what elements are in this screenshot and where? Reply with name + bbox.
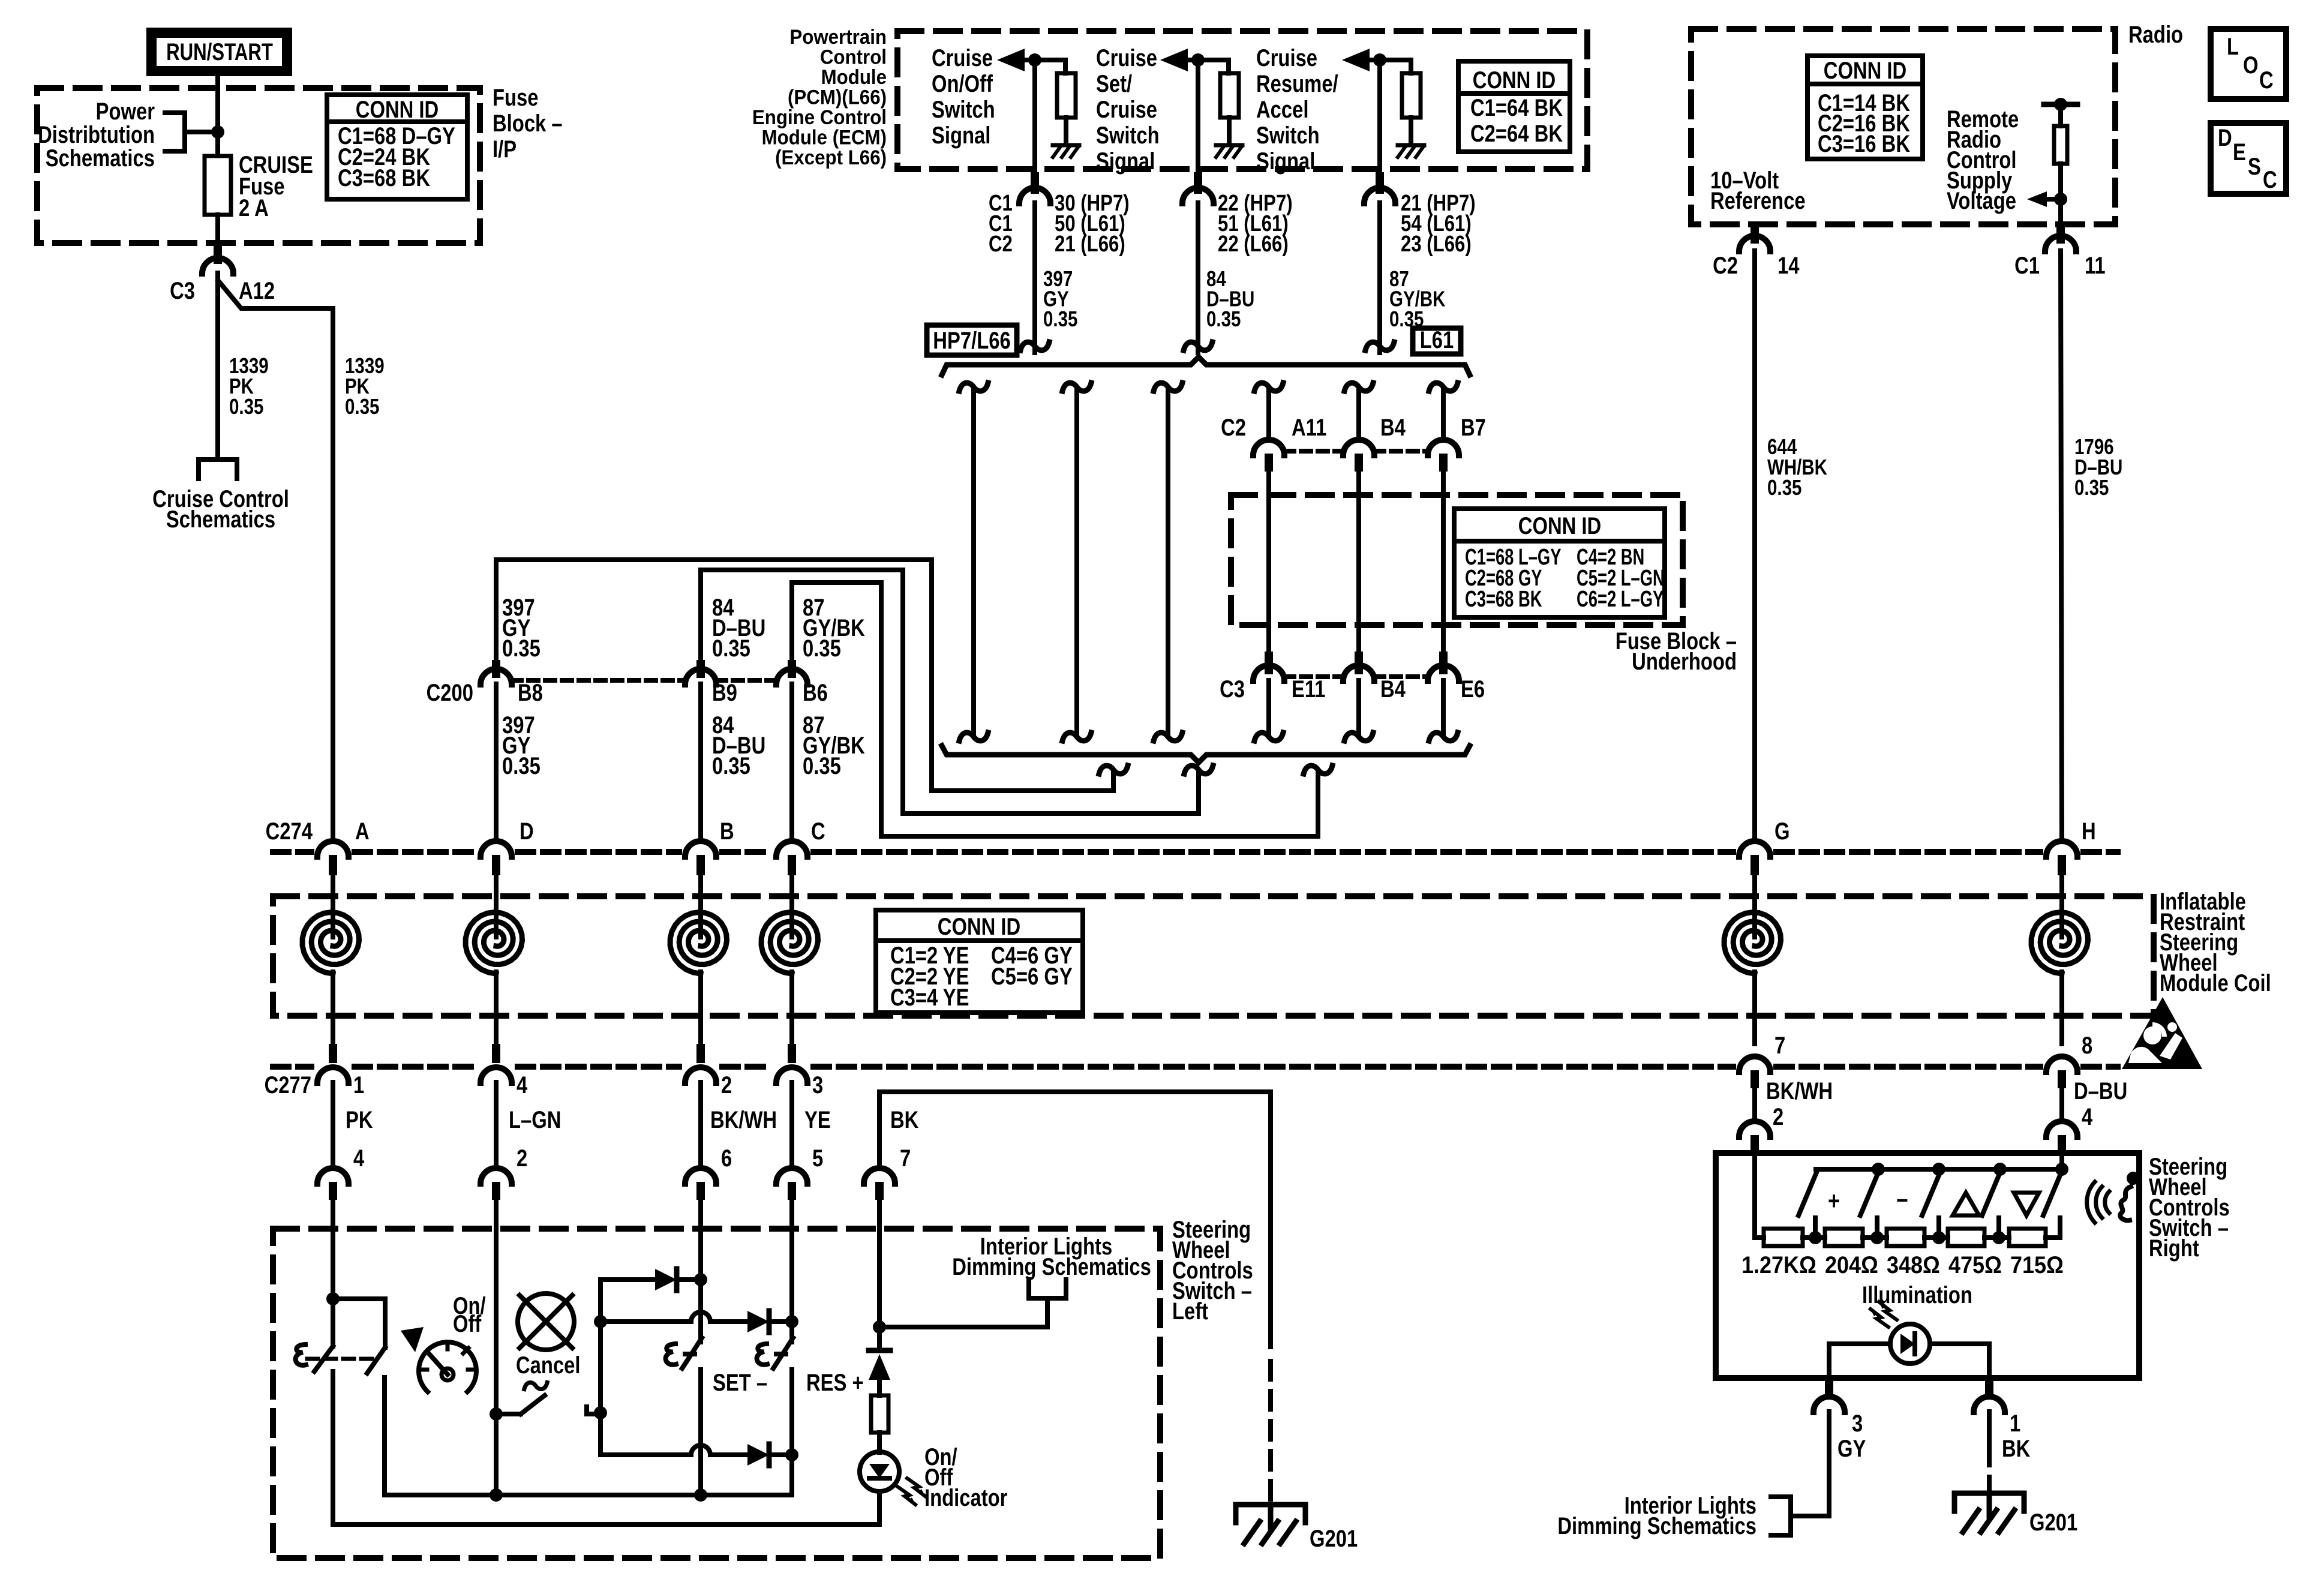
connector stub C200 x=1320 [788, 660, 796, 678]
svg-text:6: 6 [721, 1145, 732, 1172]
airbag warning triangle [2122, 997, 2202, 1069]
node BK interior lights tap [873, 1320, 886, 1334]
svg-text:Dimming Schematics: Dimming Schematics [952, 1253, 1151, 1280]
svg-text:B4: B4 [1380, 676, 1406, 703]
connector fuse block underhood bottom x=2265 [1343, 665, 1374, 681]
svg-text:5: 5 [812, 1145, 823, 1172]
connector C3 fuse block [202, 258, 233, 274]
svg-text:E6: E6 [1461, 676, 1485, 703]
LED illumination [1890, 1324, 1930, 1364]
svg-text:21 (L66): 21 (L66) [1055, 232, 1125, 257]
connector foot top bundle 6 [1429, 383, 1458, 391]
connector foot splice 2 [1184, 766, 1213, 774]
wire PK to on/off switch [331, 1231, 335, 1299]
wire C274-D to coil [494, 875, 499, 937]
wire on/off first contact [331, 1299, 335, 1346]
svg-text:Indicator: Indicator [924, 1484, 1007, 1511]
switch On/Off blade 2 [367, 1347, 385, 1373]
connector switch pin 4 [317, 1168, 349, 1184]
wire 84 D-BU routing [701, 570, 1199, 813]
wire BK/WH into switch [698, 1200, 703, 1231]
svg-text:B9: B9 [712, 679, 737, 706]
svg-text:C: C [2259, 67, 2274, 94]
wire harness bundle 6 upper [1441, 389, 1446, 436]
svg-text:1.27KΩ: 1.27KΩ [1742, 1252, 1816, 1278]
svg-text:8: 8 [2082, 1032, 2092, 1059]
connector radio C2-14 [1739, 236, 1770, 251]
flex lead on/off switch [296, 1344, 306, 1365]
svg-text:0.35: 0.35 [1767, 475, 1801, 499]
connector fuse block underhood top x=2115 [1253, 440, 1284, 455]
resistor radio supply [2044, 102, 2077, 107]
svg-text:E: E [2233, 139, 2246, 166]
svg-text:B6: B6 [803, 679, 828, 706]
svg-text:B: B [720, 818, 734, 845]
wire harness bundle 4 upper [1266, 389, 1271, 436]
wire to switch right x=2925 [1752, 1088, 1757, 1117]
splice brace top [942, 357, 1470, 375]
svg-text:C2=64 BK: C2=64 BK [1470, 120, 1563, 147]
wire coil exit x=2925 [1752, 972, 1757, 1044]
off-page marker Interior Lights Dimming right [1771, 1497, 1791, 1535]
wire indicator return to on/off [333, 1491, 879, 1524]
svg-text:BK/WH: BK/WH [1766, 1077, 1833, 1104]
connector stub C274-A [329, 855, 337, 875]
svg-text:0.35: 0.35 [803, 752, 841, 779]
wire PCM pin C1-51 [1196, 60, 1200, 172]
wire dashed BK to G201 [1268, 1361, 1273, 1503]
svg-text:+: + [1828, 1187, 1840, 1215]
wire diode rail vertical [598, 1280, 603, 1455]
CONN ID table (Radio) [1807, 56, 1923, 159]
svg-text:RES +: RES + [806, 1369, 864, 1396]
svg-text:0.35: 0.35 [712, 635, 750, 662]
connector stub top x=2265 [1355, 454, 1363, 472]
svg-text:C2: C2 [1221, 414, 1246, 441]
connector switch pin 5 [776, 1168, 807, 1184]
connector stub x=2925 [1750, 1070, 1759, 1088]
svg-text:4: 4 [2082, 1103, 2093, 1130]
svg-text:2 A: 2 A [239, 194, 269, 221]
wire C274-C to coil [789, 875, 794, 937]
svg-text:Signal: Signal [932, 122, 990, 149]
wire cancel fixed contact [587, 1407, 600, 1414]
in-line connector symbol wire 3 [1365, 342, 1394, 350]
node PCM signal 3 [1373, 53, 1386, 67]
connector coil pin x=2925 [1739, 1056, 1770, 1072]
node res lower [785, 1448, 798, 1461]
wire cancel pole [496, 1412, 521, 1416]
connector stub top x=2406 [1439, 454, 1448, 472]
svg-text:0.35: 0.35 [803, 635, 841, 662]
connector C274-D [481, 841, 512, 857]
CONN ID table (Fuse Block I/P) [327, 95, 467, 199]
connector stub C274-C [788, 855, 796, 875]
connector foot splice 1 [1099, 766, 1128, 774]
svg-text:L–GN: L–GN [509, 1106, 561, 1133]
connector stub C274-G [1750, 855, 1759, 875]
diode D1 [655, 1269, 677, 1290]
svg-text:RUN/START: RUN/START [166, 38, 273, 65]
svg-text:0.35: 0.35 [1043, 307, 1077, 331]
label box L61 [1413, 328, 1461, 354]
connector C274-A [317, 841, 349, 857]
node diode rail mid [594, 1315, 607, 1328]
node on/off pole [326, 1292, 340, 1305]
connector foot bottom bundle 6 [1429, 733, 1458, 741]
connector C277 pin 1 [317, 1067, 349, 1083]
node set signal top [694, 1273, 707, 1286]
svg-text:G201: G201 [1310, 1525, 1358, 1552]
svg-text:Signal: Signal [1256, 148, 1315, 175]
node top bus x=3334 [1993, 1163, 2007, 1176]
dashed link bottom connector row [1284, 674, 1343, 679]
connector pin 1 [1974, 1397, 2005, 1412]
connector stub above C277 pin 3 [788, 1044, 796, 1063]
switch blade 4 [1982, 1171, 2001, 1215]
wire below fuse block x=2265 [1356, 680, 1361, 734]
connector foot top bundle 3 [1154, 383, 1182, 391]
flex lead set switch [666, 1344, 676, 1365]
connector stub switch pin 6 [696, 1182, 705, 1200]
connector fuse block underhood bottom x=2115 [1253, 665, 1284, 681]
svg-text:C3=16 BK: C3=16 BK [1818, 130, 1911, 157]
svg-text:7: 7 [1774, 1032, 1785, 1059]
svg-text:Underhood: Underhood [1632, 648, 1737, 675]
diode D2 [747, 1311, 769, 1332]
svg-text:1: 1 [353, 1071, 364, 1098]
svg-text:Cruise: Cruise [1096, 96, 1157, 123]
node radio supply tap [2054, 193, 2067, 206]
svg-text:C2: C2 [989, 232, 1013, 257]
svg-text:11: 11 [2085, 252, 2106, 279]
wire YE to res switch [789, 1231, 794, 1342]
connector stub x=3437 [2058, 1070, 2066, 1088]
resistor 1.27K ohm [1764, 1229, 1803, 1246]
wire coil exit x=555 [331, 972, 335, 1044]
svg-text:Cruise: Cruise [1096, 44, 1157, 71]
dashed link top connector row [1284, 449, 1343, 454]
wire res stub to bus [789, 1370, 794, 1495]
wire radio supply down [2058, 164, 2063, 227]
connector switch right x=2925 [1739, 1121, 1770, 1137]
LED On/Off indicator [860, 1452, 899, 1491]
connector C200 x=1168 [685, 669, 716, 685]
wire resistor 3 to ground [1409, 118, 1413, 143]
wire harness bundle 3 [1166, 389, 1170, 734]
wire PK into switch [331, 1200, 335, 1231]
svg-text:Set/: Set/ [1096, 70, 1132, 97]
svg-text:2: 2 [1773, 1103, 1783, 1130]
svg-text:7: 7 [900, 1145, 911, 1172]
wire to interior lights dimming [879, 1299, 1047, 1327]
svg-text:3: 3 [1852, 1410, 1863, 1437]
off-page marker Power Distribution [165, 113, 185, 151]
wire coil exit x=3437 [2059, 972, 2064, 1044]
switch contact stub 2 [1875, 1218, 1879, 1238]
svg-text:4: 4 [353, 1145, 365, 1172]
svg-text:C200: C200 [427, 679, 473, 706]
svg-text:BK: BK [890, 1106, 919, 1133]
emission arrows illumination [1870, 1309, 1888, 1327]
node radio supply top [2054, 98, 2067, 111]
connector foot splice 3 [1304, 766, 1332, 774]
svg-text:CONN ID: CONN ID [356, 96, 439, 123]
wire D-BU into switch bus [2059, 1152, 2064, 1169]
node ladder x=3332 [1992, 1231, 2005, 1244]
arrow pointer on/off [401, 1327, 424, 1352]
ground G201 left [1236, 1505, 1305, 1523]
svg-text:GY: GY [1837, 1435, 1866, 1462]
connector foot bottom bundle 1 [959, 733, 988, 741]
gauge icon speedometer [419, 1342, 476, 1392]
svg-text:715Ω: 715Ω [2010, 1252, 2064, 1278]
svg-text:0.35: 0.35 [502, 752, 541, 779]
svg-text:A: A [355, 818, 370, 845]
svg-text:BK: BK [2002, 1435, 2031, 1462]
wire PCM pin C1-54 [1377, 60, 1382, 172]
dashed link C200 row [512, 678, 685, 683]
coil spiral x=555 [302, 912, 359, 974]
arrow cruise on/off signal [997, 49, 1025, 71]
wire marker to node [185, 130, 211, 134]
wire GY to interior lights dimming [1794, 1412, 1829, 1516]
wire set stub to bus [698, 1370, 703, 1495]
wire 84 D–BU to splice brace [1196, 203, 1200, 353]
wire harness bundle 5 upper [1356, 389, 1361, 436]
svg-text:H: H [2082, 818, 2096, 845]
wire fuse to C3 connector [215, 215, 220, 246]
wire on/off second contact [333, 1299, 385, 1347]
switch On/Off blade 1 [314, 1346, 333, 1371]
wire harness bundle 5 through fuse block [1356, 469, 1361, 654]
wire harness bundle 2 [1074, 389, 1079, 734]
connector stub radio C1 [2056, 227, 2065, 244]
wire to switch right x=3437 [2059, 1088, 2064, 1117]
wire switch common bus [385, 1493, 792, 1497]
svg-text:Off: Off [453, 1310, 482, 1337]
svg-text:D: D [2218, 124, 2232, 151]
svg-text:O: O [2243, 52, 2259, 79]
wire diode 2 to YE [769, 1319, 792, 1324]
wire on/off to indicator return [331, 1371, 335, 1524]
connector stub radio C2 [1750, 227, 1759, 244]
svg-text:Switch: Switch [1096, 122, 1160, 149]
switch RES+ blade [773, 1338, 793, 1368]
resistor 348 ohm [1887, 1229, 1924, 1246]
svg-text:204Ω: 204Ω [1825, 1252, 1878, 1278]
connector stub C274-D [492, 855, 500, 875]
connector switch pin 2 [481, 1168, 512, 1184]
svg-text:B7: B7 [1461, 414, 1486, 441]
wire C274-A to coil [331, 875, 335, 937]
resistor 715 ohm [2009, 1229, 2046, 1246]
off-page marker Cruise Control Schematics [199, 460, 237, 479]
svg-text:E11: E11 [1292, 676, 1326, 703]
wire LED right [1930, 1341, 1989, 1346]
svg-text:C6=2 L–GY: C6=2 L–GY [1577, 587, 1664, 612]
connector pin 3 [1813, 1397, 1845, 1412]
wire BK riser to G201 [1268, 1092, 1273, 1347]
svg-text:SET –: SET – [713, 1369, 767, 1396]
splice brace bottom [942, 746, 1470, 763]
Fuse Block - I/P box [37, 88, 480, 243]
arrow cruise resume signal [1342, 49, 1370, 71]
svg-text:C3=68 BK: C3=68 BK [338, 164, 431, 191]
voice recognition icon [2127, 1172, 2140, 1185]
connector stub switch pin 7 [875, 1182, 884, 1200]
wire 397 GY to splice brace [1032, 203, 1037, 353]
connector fuse block underhood top x=2406 [1428, 440, 1459, 455]
in-line connector symbol wire 2 [1184, 342, 1212, 350]
connector C274-B [685, 841, 716, 857]
connector stub PCM 1 [1031, 172, 1039, 194]
wire L-GN to bus [494, 1418, 499, 1495]
svg-text:Illumination: Illumination [1862, 1281, 1972, 1308]
svg-text:4: 4 [517, 1071, 528, 1098]
connector stub switch pin 4 [329, 1182, 337, 1200]
connector foot bottom bundle 5 [1344, 733, 1373, 741]
resistor PCM pull-up 2 [1220, 73, 1239, 118]
wire YE C277 to switch connector [789, 1082, 794, 1164]
wire resistor to LED [877, 1433, 882, 1452]
wire coil exit x=827 [494, 972, 499, 1044]
svg-text:348Ω: 348Ω [1887, 1252, 1940, 1278]
svg-text:CONN ID: CONN ID [1518, 512, 1601, 539]
switch contact stub 3 [1936, 1218, 1941, 1238]
arrow cruise set signal [1160, 49, 1188, 71]
connector radio C1-11 [2045, 236, 2076, 251]
connector stub C200 x=1168 [696, 660, 705, 678]
wire coil exit x=1320 [789, 972, 794, 1044]
connector C277 pin 2 [685, 1067, 716, 1083]
node ladder x=3026 [1809, 1231, 1822, 1244]
svg-text:C1: C1 [2014, 252, 2040, 279]
PCM/ECM box [897, 31, 1587, 169]
wire dashed BK to G201 right [1987, 1447, 1992, 1491]
connector foot bottom bundle 2 [1062, 733, 1091, 741]
svg-text:C3=68 BK: C3=68 BK [1465, 587, 1542, 612]
svg-text:G201: G201 [2029, 1509, 2077, 1536]
arrow radio supply voltage [2027, 191, 2047, 207]
symbol seek down triangle [2014, 1193, 2039, 1215]
flex lead cancel switch [524, 1382, 547, 1389]
connector stub pin 3 [1825, 1380, 1833, 1398]
node bus set [694, 1488, 707, 1502]
svg-text:Right: Right [2149, 1235, 2199, 1262]
connector stub C274-H [2058, 855, 2066, 875]
wire resistor 1 to ground [1064, 118, 1068, 143]
connector stub above C277 pin 2 [696, 1044, 705, 1063]
wire C274-G to coil [1752, 875, 1757, 937]
wire harness bundle 6 through fuse block [1441, 469, 1446, 654]
flex lead res switch [757, 1344, 767, 1365]
node ladder x=3129 [1870, 1231, 1884, 1244]
wire LED to pin 3 [1827, 1344, 1831, 1380]
wire diode 1 to BK/WH [677, 1277, 701, 1282]
svg-text:0.35: 0.35 [2074, 475, 2109, 499]
wire ladder top bus [1816, 1167, 2062, 1172]
connector C200 x=827 [481, 669, 512, 685]
node bus L-GN [490, 1488, 503, 1502]
Inflatable Restraint Steering Wheel Module Coil box [273, 896, 2154, 1016]
Steering Wheel Controls Switch - Left box [273, 1229, 1160, 1558]
node top bus x=3437 [2055, 1163, 2068, 1176]
wire PCM pin C1-30 [1032, 60, 1037, 172]
switch blade 3 [1922, 1171, 1941, 1215]
svg-text:Resume/: Resume/ [1256, 70, 1338, 97]
svg-text:0.35: 0.35 [229, 394, 263, 418]
wire BK into switch [877, 1200, 882, 1231]
svg-text:0.35: 0.35 [712, 752, 750, 779]
svg-text:HP7/L66: HP7/L66 [933, 327, 1010, 354]
connector PCM C1 [1019, 188, 1050, 203]
wire L-GN to cancel switch [494, 1231, 499, 1414]
svg-text:C2: C2 [1713, 252, 1738, 279]
switch blade 1 [1798, 1171, 1817, 1215]
switch contact stub 5 [2058, 1218, 2062, 1238]
connector stub C200 x=827 [492, 660, 500, 678]
wire below fuse block x=2406 [1441, 680, 1446, 734]
switch contact stub 1 [1813, 1218, 1818, 1238]
svg-text:Schematics: Schematics [46, 145, 155, 172]
CONN ID table (Fuse Block Underhood) [1454, 509, 1665, 617]
switch SET- blade [682, 1338, 702, 1368]
connector switch pin 7 [864, 1168, 895, 1184]
svg-text:C3=4 YE: C3=4 YE [890, 984, 969, 1011]
connector stub C274-B [696, 855, 705, 875]
svg-text:0.35: 0.35 [345, 394, 379, 418]
wire YE into switch [789, 1200, 794, 1231]
coil spiral x=3437 [2031, 912, 2088, 974]
svg-text:PK: PK [346, 1106, 373, 1133]
svg-text:–: – [1896, 1185, 1908, 1213]
svg-text:Switch: Switch [932, 96, 995, 123]
ground PCM 2 [1216, 143, 1242, 148]
connector C200 x=1320 [776, 669, 807, 685]
svg-text:0.35: 0.35 [502, 635, 541, 662]
lamp Cancel [518, 1293, 574, 1350]
wire 84 D-BU C200 to C274-B [698, 684, 703, 836]
svg-text:C1=64 BK: C1=64 BK [1470, 94, 1563, 121]
wire BK to indicator diode [877, 1231, 882, 1349]
wire arrow to resistor 1 [1025, 60, 1065, 73]
node res signal top [785, 1315, 798, 1328]
wire diode rail to res switch with hop [600, 1312, 747, 1322]
svg-text:14: 14 [1777, 252, 1800, 279]
wire 1339 PK to cruise control schematics [215, 273, 220, 460]
wire arrow to resistor 2 [1188, 60, 1229, 73]
connector foot bottom bundle 4 [1254, 733, 1283, 741]
wire 644 WH/BK radio to C274-G [1752, 251, 1757, 836]
connector switch right x=3437 [2046, 1121, 2077, 1137]
wire 87 GY/BK routing [792, 583, 1318, 836]
svg-text:Voltage: Voltage [1947, 187, 2016, 214]
svg-text:L: L [2227, 33, 2239, 60]
connector C277 pin 4 [481, 1067, 512, 1083]
svg-text:C274: C274 [266, 818, 313, 845]
node power feed junction [211, 125, 224, 139]
wire 397 GY C200 to C274-D [494, 684, 499, 836]
switch blade 5 [2043, 1171, 2062, 1215]
symbol seek up triangle [1953, 1193, 1979, 1215]
connector row C274 dashed line [273, 849, 311, 855]
svg-text:C: C [2263, 166, 2277, 193]
connector foot top bundle 1 [959, 383, 988, 391]
node PCM signal 2 [1191, 53, 1205, 67]
CONN ID table (PCM) [1458, 61, 1570, 152]
diode D3 [747, 1444, 769, 1466]
